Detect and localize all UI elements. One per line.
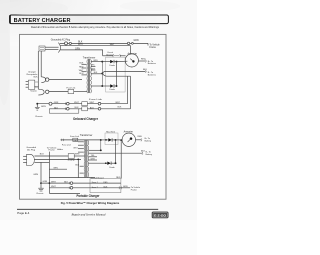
svg-text:GRY: GRY bbox=[91, 68, 96, 70]
node rectifier output bottom bbox=[116, 85, 118, 87]
svg-text:Fig. 5 PowerWise™ Charger Wiri: Fig. 5 PowerWise™ Charger Wiring Diagram… bbox=[61, 201, 120, 205]
diode D2 bbox=[110, 84, 114, 87]
ammeter M1 bbox=[125, 54, 138, 67]
node vehicle frame terminal bbox=[147, 43, 149, 45]
svg-text:Page E-4: Page E-4 bbox=[17, 211, 29, 215]
svg-text:Frame: Frame bbox=[131, 188, 138, 191]
connector frame exit bbox=[119, 186, 121, 189]
connector ring AC 1 bbox=[65, 42, 68, 45]
svg-text:30 Amp: 30 Amp bbox=[68, 159, 76, 162]
svg-text:Batteries: Batteries bbox=[148, 74, 156, 77]
svg-text:AC Plug: AC Plug bbox=[27, 149, 36, 152]
connector hook upper bbox=[41, 77, 46, 83]
fuse F1 bbox=[68, 89, 74, 93]
svg-text:Fuse Link: Fuse Link bbox=[70, 136, 80, 138]
svg-text:WHT: WHT bbox=[51, 186, 56, 188]
svg-text:GRN: GRN bbox=[134, 40, 139, 42]
wire primary tap p5 bbox=[80, 165, 84, 167]
svg-text:Chassis: Chassis bbox=[35, 116, 43, 118]
svg-text:Grounded AC Plug: Grounded AC Plug bbox=[51, 38, 71, 41]
node sec bottom bbox=[101, 85, 103, 87]
svg-text:Fuse 1: Fuse 1 bbox=[92, 182, 99, 184]
svg-text:Chassis: Chassis bbox=[36, 193, 43, 195]
svg-text:GRN: GRN bbox=[53, 167, 58, 169]
svg-text:WHT: WHT bbox=[51, 182, 56, 184]
wire secondary top tap to bus bbox=[88, 149, 100, 151]
node D4 output bbox=[115, 162, 117, 164]
heat sink box portable bbox=[105, 133, 118, 145]
wire primary tap p3 bbox=[78, 148, 84, 150]
connector ring row2 bbox=[69, 187, 73, 190]
transformer T2 bbox=[84, 140, 88, 178]
node sec center bbox=[101, 72, 103, 74]
svg-text:E-Z-GO: E-Z-GO bbox=[154, 213, 166, 217]
svg-text:RED: RED bbox=[79, 66, 84, 68]
connector hook B- bbox=[144, 70, 147, 73]
wire diode output bus bbox=[116, 62, 118, 86]
wire D2 to node bbox=[114, 85, 117, 87]
svg-text:GRN: GRN bbox=[54, 102, 59, 104]
wire primary tap p4 bbox=[78, 151, 84, 153]
svg-text:ORG: ORG bbox=[73, 147, 78, 149]
svg-text:BATTERY CHARGER: BATTERY CHARGER bbox=[14, 18, 71, 24]
connector ring row1 right bbox=[98, 102, 101, 105]
wire green chassis run bbox=[37, 103, 127, 105]
node bus top bbox=[100, 139, 102, 141]
fuse F2 bbox=[82, 102, 88, 106]
svg-text:WHT: WHT bbox=[89, 102, 94, 104]
wire dc row 2 bbox=[49, 108, 130, 110]
wire primary tap 1 bbox=[82, 63, 87, 65]
svg-text:RED: RED bbox=[138, 136, 143, 138]
wire rectifier bus portable bbox=[100, 140, 102, 150]
svg-text:BLK: BLK bbox=[64, 182, 69, 184]
diode D3 bbox=[108, 138, 112, 141]
wire bus to D3 bbox=[101, 139, 109, 141]
wire AC down-lead right bbox=[40, 51, 42, 77]
wire rectifier input bus bbox=[101, 62, 103, 86]
node sec top bbox=[101, 61, 103, 63]
svg-text:Read all of this section and S: Read all of this section and Section B b… bbox=[31, 25, 160, 29]
svg-text:BLK: BLK bbox=[54, 107, 59, 109]
wire to diode D1 bbox=[102, 61, 110, 63]
node GRN row tap bbox=[40, 182, 42, 184]
svg-text:Repair and Service Manual: Repair and Service Manual bbox=[71, 213, 106, 217]
wire node to ammeter bbox=[117, 60, 128, 62]
wire GRN to vehicle frame bbox=[60, 42, 148, 44]
circuit board box bbox=[90, 179, 121, 193]
heat sink box bbox=[106, 57, 126, 92]
svg-text:Onboard Charger: Onboard Charger bbox=[73, 117, 99, 121]
svg-text:Battery: Battery bbox=[145, 140, 152, 143]
fuse F4 bbox=[68, 154, 74, 159]
AC wall plug P1 bbox=[39, 43, 60, 53]
svg-text:Frame: Frame bbox=[149, 46, 156, 49]
svg-text:WHT: WHT bbox=[79, 70, 84, 72]
svg-text:BLK: BLK bbox=[104, 187, 108, 189]
wire secondary tap bottom bbox=[91, 85, 103, 87]
node before D4 bbox=[105, 162, 107, 164]
wire secondary bottom return bbox=[49, 177, 95, 179]
svg-text:WHT: WHT bbox=[78, 44, 84, 46]
page background bbox=[0, 0, 197, 255]
svg-text:GRN: GRN bbox=[41, 106, 46, 108]
wire fuse to transformer bbox=[74, 91, 87, 93]
AC plug P2 bbox=[23, 154, 34, 165]
svg-text:BLK: BLK bbox=[118, 106, 122, 108]
wire tap to D4 bbox=[88, 162, 107, 164]
connector ring AC 4 bbox=[132, 43, 134, 45]
svg-text:GRN: GRN bbox=[33, 174, 38, 176]
svg-text:BLU: BLU bbox=[75, 165, 79, 167]
wire primary tap 2 bbox=[82, 67, 87, 69]
connector pair mid run bbox=[65, 102, 69, 105]
wire diode bus portable bbox=[115, 140, 117, 163]
wire primary tap 3 bbox=[82, 71, 87, 73]
wire GRN stub bbox=[49, 168, 67, 170]
wire primary tap p1 bbox=[78, 141, 84, 143]
wire node to ammeter portable bbox=[116, 139, 123, 141]
svg-text:BLK: BLK bbox=[75, 107, 80, 109]
svg-text:Frame: Frame bbox=[49, 150, 56, 152]
svg-text:WHT: WHT bbox=[110, 44, 115, 46]
fuse F3 bbox=[82, 107, 88, 111]
svg-text:BRN: BRN bbox=[94, 60, 99, 62]
ground chassis portable bbox=[38, 188, 44, 191]
ground chassis bbox=[35, 104, 40, 110]
svg-text:Receptacle: Receptacle bbox=[27, 73, 39, 76]
connector pair row2 bbox=[65, 108, 69, 111]
connector hook B+ bbox=[144, 60, 147, 63]
breaker CB1 bbox=[103, 54, 126, 57]
node green row junction bbox=[49, 182, 51, 184]
wire WHT drop bbox=[77, 159, 79, 177]
connector ring AC 2 bbox=[69, 42, 71, 44]
svg-text:Battery: Battery bbox=[146, 153, 153, 156]
wire fuse to transformer bbox=[74, 155, 84, 157]
svg-text:Holder: Holder bbox=[57, 148, 63, 151]
wire GRN chassis drop bbox=[40, 162, 42, 188]
svg-text:WHT: WHT bbox=[74, 102, 79, 104]
wire BLK AC line to ammeter bbox=[60, 46, 130, 55]
svg-text:GRN: GRN bbox=[43, 181, 48, 183]
diode D4 bbox=[107, 162, 111, 165]
node green junction bbox=[36, 103, 38, 105]
node rectifier output top bbox=[116, 61, 118, 63]
wire secondary tap mid1 bbox=[91, 65, 96, 67]
wire green return bottom bbox=[49, 192, 80, 194]
connector ring row2 right bbox=[98, 108, 101, 111]
svg-text:Transformer: Transformer bbox=[80, 134, 93, 137]
svg-text:BLK: BLK bbox=[40, 153, 45, 155]
wire center tap B- portable bbox=[88, 152, 142, 154]
wire primary tap 4 bbox=[82, 74, 87, 76]
wire to diode D2 bbox=[102, 85, 110, 87]
connector hook B+ portable bbox=[140, 138, 143, 141]
wire dc drop 1 bbox=[127, 76, 129, 104]
svg-text:WHT: WHT bbox=[75, 154, 80, 156]
svg-text:Fuse Link: Fuse Link bbox=[66, 87, 76, 89]
wire secondary center tap bbox=[91, 73, 103, 75]
wire WHT line bbox=[34, 158, 81, 160]
wire ammeter to B+ bbox=[138, 60, 145, 62]
svg-text:BLK: BLK bbox=[34, 77, 39, 79]
svg-text:Portable Charger: Portable Charger bbox=[77, 194, 101, 198]
wire AC down-lead left bbox=[37, 51, 39, 89]
header bar BATTERY CHARGER bbox=[9, 15, 168, 24]
wire upper receptacle lead bbox=[49, 79, 82, 81]
wire D3 to node bbox=[112, 139, 115, 141]
svg-text:RED: RED bbox=[74, 140, 79, 142]
svg-text:Batteries: Batteries bbox=[148, 62, 156, 65]
transformer T1 bbox=[87, 59, 91, 93]
svg-text:Receptacle: Receptacle bbox=[30, 89, 37, 92]
svg-text:Heat Sink: Heat Sink bbox=[106, 131, 116, 134]
wire frame exit bbox=[121, 187, 130, 189]
wire primary tap p2 bbox=[78, 144, 84, 146]
svg-text:GRN: GRN bbox=[75, 48, 80, 50]
svg-text:BLK: BLK bbox=[80, 63, 85, 65]
node bus tap bbox=[100, 149, 102, 151]
fuse F5 inline bbox=[73, 138, 78, 141]
svg-text:RED: RED bbox=[103, 182, 108, 184]
node before D3 bbox=[105, 139, 107, 141]
wire WHT AC line to breaker bbox=[60, 50, 103, 56]
connector ring row1 bbox=[69, 182, 73, 185]
svg-text:Diode: Diode bbox=[109, 167, 115, 169]
figure frame bbox=[20, 34, 167, 199]
wire GRN line bbox=[34, 161, 49, 163]
wire dc tap dip bbox=[102, 73, 130, 76]
wire D1 to node bbox=[114, 61, 117, 63]
receptacle block J1 bbox=[26, 80, 39, 89]
wire board row 1 bbox=[41, 182, 121, 184]
svg-text:Fuse and: Fuse and bbox=[62, 145, 71, 147]
node frame terminal portable bbox=[47, 147, 58, 193]
wire secondary tap s3 bbox=[88, 159, 97, 161]
ammeter M2 bbox=[122, 133, 135, 146]
svg-text:Diode: Diode bbox=[110, 89, 116, 91]
wire dc drop 2 bbox=[130, 76, 132, 109]
svg-text:GRY: GRY bbox=[90, 158, 95, 160]
wire secondary tap mid2 bbox=[91, 69, 96, 71]
wire board row 2 bbox=[49, 187, 121, 189]
connector ring chassis run bbox=[49, 102, 52, 105]
connector hook lower bbox=[38, 89, 44, 95]
svg-text:BLU: BLU bbox=[79, 73, 84, 75]
diode D1 bbox=[110, 60, 114, 63]
svg-text:Fuse Link: Fuse Link bbox=[89, 99, 103, 101]
node D3 output bbox=[115, 139, 117, 141]
node WHT drop bbox=[77, 159, 79, 161]
wire ammeter to B+ portable bbox=[135, 139, 141, 141]
svg-text:Fuse 2: Fuse 2 bbox=[92, 187, 99, 189]
wire BLK to fuse bbox=[34, 155, 68, 157]
connector ring lower bbox=[46, 90, 49, 93]
wire plug to connector 2 bbox=[45, 49, 58, 51]
wire plug to connector bbox=[45, 46, 59, 48]
connector ring AC 3 bbox=[127, 42, 129, 44]
node board drop tap bbox=[120, 139, 122, 141]
wire D4 to node bbox=[111, 162, 115, 164]
svg-text:WHT: WHT bbox=[34, 87, 39, 89]
wire secondary tap s2 bbox=[88, 156, 97, 158]
svg-text:BLK: BLK bbox=[90, 107, 95, 109]
wire primary tap p6 bbox=[80, 172, 84, 174]
connector ticks top wire bbox=[62, 139, 64, 141]
connector ring upper bbox=[46, 78, 49, 81]
svg-text:RED: RED bbox=[141, 59, 146, 61]
svg-text:GRN: GRN bbox=[123, 186, 128, 188]
footer rule bbox=[17, 208, 158, 210]
svg-text:Diode: Diode bbox=[110, 65, 116, 67]
wire center tap to B- bbox=[102, 71, 145, 73]
connector hook B- portable bbox=[141, 152, 144, 155]
wire fuse to transformer top bbox=[61, 139, 101, 141]
footer logo E-Z-GO bbox=[152, 212, 168, 218]
wire board drop bbox=[120, 140, 122, 178]
wire lower receptacle lead bbox=[49, 91, 68, 93]
wire cable loop bbox=[49, 109, 79, 113]
wire secondary tap top to rectifier bbox=[91, 61, 103, 63]
